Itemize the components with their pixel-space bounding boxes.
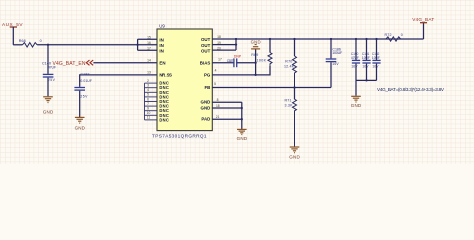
pin names right xyxy=(200,37,211,122)
wire GND PAD bracket xyxy=(212,102,243,129)
capacitor C186 feedforward xyxy=(326,38,343,88)
svg-text:16V: 16V xyxy=(351,65,358,69)
svg-text:6: 6 xyxy=(147,97,149,101)
DNC pin numbers xyxy=(147,79,151,120)
resistor R69 100K pull-up xyxy=(251,38,272,66)
svg-text:100K: 100K xyxy=(257,58,267,62)
wire EN net xyxy=(93,62,157,64)
svg-text:12.4K: 12.4K xyxy=(284,64,295,68)
svg-text:9: 9 xyxy=(147,107,149,111)
svg-text:16V: 16V xyxy=(332,62,339,66)
svg-text:15: 15 xyxy=(147,35,151,39)
svg-text:10: 10 xyxy=(147,111,151,115)
svg-text:47UF: 47UF xyxy=(351,56,359,60)
svg-text:17: 17 xyxy=(147,46,151,50)
svg-text:FB: FB xyxy=(204,85,210,90)
svg-text:10UF: 10UF xyxy=(362,56,370,60)
svg-text:PAD: PAD xyxy=(201,117,210,122)
svg-text:GND: GND xyxy=(201,100,211,105)
capacitor C190 47UF xyxy=(351,38,360,81)
ground symbol below C140 xyxy=(43,97,54,115)
svg-text:IN: IN xyxy=(159,37,163,42)
power flag AUX_5V xyxy=(2,22,23,45)
svg-text:4: 4 xyxy=(147,88,149,92)
svg-text:OUT: OUT xyxy=(201,48,211,53)
svg-text:10UF: 10UF xyxy=(372,56,380,60)
ground symbol below R71 xyxy=(289,147,300,159)
svg-text:21: 21 xyxy=(216,115,220,119)
svg-text:V4G_BAT_EN: V4G_BAT_EN xyxy=(53,61,86,67)
svg-text:NR_SS: NR_SS xyxy=(159,72,172,77)
svg-text:4: 4 xyxy=(215,68,217,72)
svg-text:7: 7 xyxy=(147,102,149,106)
svg-text:25V: 25V xyxy=(48,78,56,82)
svg-text:8: 8 xyxy=(217,98,219,102)
svg-text:2: 2 xyxy=(147,79,149,83)
svg-text:GND: GND xyxy=(43,109,54,114)
wire BIAS net xyxy=(212,62,233,64)
svg-text:AUX_5V: AUX_5V xyxy=(2,22,23,27)
svg-text:3: 3 xyxy=(147,84,149,88)
ground symbol inverted above BIAS cap xyxy=(251,40,261,49)
capacitor C192 10UF xyxy=(372,38,381,81)
svg-text:13: 13 xyxy=(147,71,151,75)
svg-text:V4G_BAT=(0.8/3.3)*(12.4+3.3)=3: V4G_BAT=(0.8/3.3)*(12.4+3.3)=3.8V xyxy=(377,87,445,92)
svg-text:GND: GND xyxy=(351,103,362,108)
svg-text:GND: GND xyxy=(201,106,211,111)
wire NR_SS net xyxy=(80,75,157,87)
resistor R70 12.4K xyxy=(284,38,297,88)
svg-text:BIAS: BIAS xyxy=(200,60,211,65)
junction node BIAS/GND/PG xyxy=(254,62,256,64)
capacitor C187 DNP bias xyxy=(227,54,242,67)
svg-text:DNC: DNC xyxy=(159,117,169,122)
wire IN pin bracket xyxy=(136,39,157,50)
junction node at C140 tap xyxy=(47,44,49,46)
wire AUX_5V rail xyxy=(13,44,22,46)
svg-text:IN: IN xyxy=(159,43,163,48)
svg-text:IN: IN xyxy=(159,49,163,54)
wire BIAS node down to PG line xyxy=(255,63,257,75)
svg-text:DNP: DNP xyxy=(234,54,242,58)
wire OUT pin bracket xyxy=(212,38,237,50)
svg-text:11: 11 xyxy=(147,116,151,120)
op IC U1 regulator U9 TPS7A5301QRGRRQ1 body xyxy=(152,24,212,139)
svg-text:R69: R69 xyxy=(251,53,258,57)
ground symbol below IC GND bracket xyxy=(237,129,248,141)
junction node FB divider xyxy=(293,86,295,88)
ground symbol below capacitor group xyxy=(351,96,362,108)
pin names left xyxy=(159,37,172,122)
svg-text:PG: PG xyxy=(204,72,211,77)
svg-text:R71: R71 xyxy=(285,99,292,103)
wire PG net xyxy=(212,66,270,75)
svg-text:17: 17 xyxy=(218,58,222,62)
ground symbol below C182 xyxy=(75,117,86,130)
svg-text:0.01UF: 0.01UF xyxy=(80,79,92,83)
svg-text:R70: R70 xyxy=(285,60,292,64)
svg-text:16V: 16V xyxy=(372,65,379,69)
svg-text:OUT: OUT xyxy=(201,43,211,48)
resistor R68 (0 ohm) xyxy=(19,39,42,47)
svg-text:C187: C187 xyxy=(227,59,234,63)
svg-text:14: 14 xyxy=(147,58,151,62)
capacitor C140 47uF xyxy=(42,45,56,97)
wire capacitor group bottom bar xyxy=(356,79,377,96)
svg-text:GND: GND xyxy=(289,154,300,159)
svg-text:18: 18 xyxy=(216,104,220,108)
svg-text:0: 0 xyxy=(401,33,403,37)
capacitor C191 10UF xyxy=(362,38,371,81)
svg-text:R68: R68 xyxy=(19,39,26,43)
svg-text:GND: GND xyxy=(251,40,261,45)
svg-text:V4G_BAT: V4G_BAT xyxy=(412,17,434,22)
DNC pin stubs tied xyxy=(145,83,158,120)
capacitor C182 0.01uF xyxy=(74,73,92,118)
resistor R72 (0 ohm) xyxy=(385,33,403,41)
sheet background xyxy=(0,0,474,164)
svg-text:OUT: OUT xyxy=(201,37,211,42)
svg-text:16V: 16V xyxy=(362,65,369,69)
resistor R71 3.3K xyxy=(285,88,297,147)
svg-text:0: 0 xyxy=(40,39,42,43)
svg-text:TPS7A5301QRGRRQ1: TPS7A5301QRGRRQ1 xyxy=(152,133,207,138)
svg-text:3.3K: 3.3K xyxy=(285,103,294,107)
svg-text:16: 16 xyxy=(147,41,151,45)
svg-text:C140: C140 xyxy=(42,61,51,65)
svg-text:100UF: 100UF xyxy=(332,51,343,55)
wire BIAS cap to gnd xyxy=(237,49,256,62)
svg-text:C182: C182 xyxy=(80,73,89,77)
wire FB net xyxy=(212,87,331,89)
svg-text:GND: GND xyxy=(237,136,248,141)
svg-text:U9: U9 xyxy=(159,24,165,29)
net label V4G_BAT_EN xyxy=(53,60,94,67)
svg-text:GND: GND xyxy=(75,125,86,130)
svg-text:5: 5 xyxy=(214,82,216,86)
svg-text:25V: 25V xyxy=(80,94,88,98)
svg-text:5: 5 xyxy=(147,93,149,97)
svg-text:R72: R72 xyxy=(385,33,392,37)
wire output rail xyxy=(236,38,424,40)
pin numbers 15 16 17 xyxy=(147,35,151,74)
power flag V4G_BAT xyxy=(412,17,434,39)
wire rail to IC IN xyxy=(37,44,138,46)
svg-text:EN: EN xyxy=(159,60,165,65)
pin numbers right xyxy=(214,35,222,119)
